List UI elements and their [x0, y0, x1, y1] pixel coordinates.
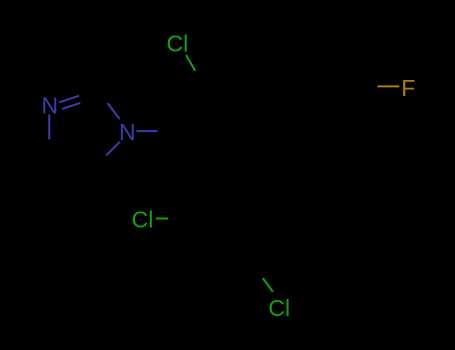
svg-text:Cl: Cl: [268, 295, 290, 321]
bond N3-C4 (blue half, vertical): [48, 115, 50, 140]
bond F-C aromatic (orange half, horizontal): [378, 85, 400, 87]
bond N3=C2 outer line (blue half): [59, 96, 79, 103]
bond C2-N1 (blue half): [108, 103, 120, 119]
svg-text:Cl: Cl: [132, 207, 154, 233]
bond N3=C2 inner double-bond line (blue half): [62, 103, 80, 109]
bond Cl-CH2 (green half, top): [186, 55, 195, 71]
svg-text:N: N: [119, 119, 136, 145]
svg-text:F: F: [401, 75, 415, 101]
bond N1-C5 (blue half): [106, 142, 120, 156]
bond N1-CH central carbon (blue half, horizontal): [137, 130, 158, 132]
svg-text:Cl: Cl: [167, 31, 189, 57]
bond Cl-C aromatic para (green half, diagonal): [263, 278, 273, 292]
bond Cl-C aromatic ortho (green half, horizontal): [156, 218, 168, 220]
